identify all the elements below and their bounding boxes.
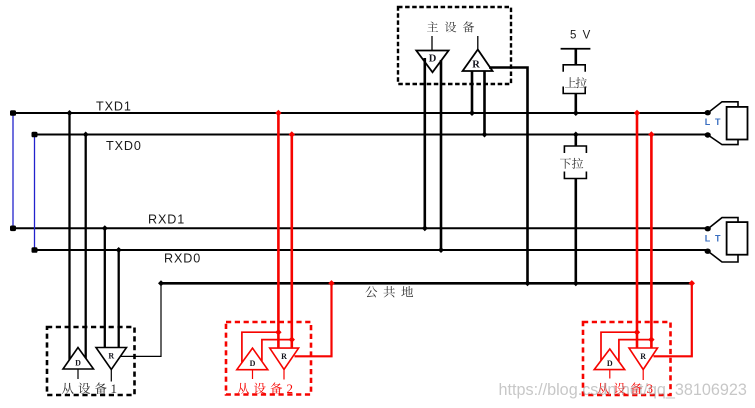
wire slave3 internal to D right bbox=[619, 340, 652, 361]
label 从设备2 bbox=[237, 383, 249, 394]
wire master R out to ground bbox=[489, 68, 528, 284]
wire blue loop TXD0-RXD0 bbox=[34, 135, 36, 251]
node terminator bottom dot bbox=[705, 249, 711, 254]
master receiver R stub bbox=[477, 36, 479, 50]
wire TXD0 bus bbox=[35, 134, 709, 136]
slave2 box 从设备2 bbox=[226, 322, 311, 395]
resistor LT termination bbox=[727, 107, 748, 140]
svg-text:L T: L T bbox=[705, 234, 722, 244]
node TXD1 left terminal bbox=[10, 110, 16, 116]
wire slave1 R out to ground bbox=[121, 283, 161, 356]
wire slave1 TXD1 tap bbox=[68, 113, 70, 361]
master device box 主设备 bbox=[398, 7, 511, 84]
node junction slave2 internal 2 bbox=[289, 336, 295, 342]
wire TXD1 bus bbox=[11, 112, 708, 114]
node junction slave1-RXD0 bbox=[116, 247, 122, 253]
wire blue loop TXD1-RXD1 bbox=[12, 113, 14, 228]
wire slave1 RXD0 tap bbox=[118, 250, 120, 348]
wire master D out to RXD0 bbox=[440, 60, 443, 251]
wire slave2 internal to D left bbox=[242, 332, 279, 362]
node junction slave3-TXD0 bbox=[648, 131, 654, 137]
node junction D-RXD0 bbox=[438, 247, 444, 253]
node junction master-ground bbox=[525, 280, 531, 286]
node junction pulldown-TXD0 bbox=[573, 132, 579, 138]
node junction slave3 internal 2 bbox=[648, 336, 654, 342]
svg-text:D: D bbox=[429, 54, 437, 65]
wire RXD1 bus bbox=[11, 227, 708, 229]
wire slave1 RXD1 tap bbox=[104, 228, 106, 348]
node junction D-RXD1 bbox=[422, 225, 428, 231]
op-amp slave3 receiver R bbox=[629, 348, 658, 370]
svg-text:TXD1: TXD1 bbox=[96, 100, 132, 114]
node junction slave2 internal 1 bbox=[275, 329, 281, 335]
node terminator top dot bbox=[705, 226, 711, 231]
svg-text:TXD0: TXD0 bbox=[106, 139, 142, 153]
op-amp slave1 receiver R bbox=[96, 348, 127, 370]
node junction slave3 internal 1 bbox=[634, 329, 640, 335]
wire common ground bus 公共地 bbox=[161, 282, 693, 285]
svg-text:D: D bbox=[250, 359, 256, 368]
label 主设备 bbox=[427, 21, 438, 31]
wire slave2 internal to D right bbox=[262, 340, 292, 361]
svg-text:R: R bbox=[108, 352, 114, 361]
wire slave2 TXD1 tap red bbox=[277, 113, 280, 349]
node junction slave1-TXD1 bbox=[67, 110, 73, 116]
wire pull-up to TXD1 bbox=[574, 94, 577, 114]
wire terminator top lead bbox=[708, 218, 738, 229]
wire master R in from TXD1 bbox=[471, 71, 474, 113]
node junction R-TXD0 bbox=[482, 132, 488, 138]
power rail bar bbox=[561, 48, 591, 50]
wire terminator top lead bbox=[708, 102, 738, 113]
node RXD0 left terminal bbox=[32, 247, 38, 253]
slave1 D stub bbox=[77, 369, 79, 379]
wire master R in from TXD0 bbox=[483, 71, 486, 135]
svg-text:1: 1 bbox=[111, 381, 118, 396]
wire slave3 R out to ground bbox=[654, 283, 692, 356]
wire slave3 TXD0 tap red bbox=[650, 135, 653, 350]
svg-text:https://blog.csdn.net/qq_38106: https://blog.csdn.net/qq_38106923 bbox=[499, 381, 747, 399]
op-amp slave3 driver D bbox=[594, 349, 625, 370]
op-amp slave2 driver D bbox=[237, 348, 268, 370]
node junction pulldown-ground bbox=[573, 280, 579, 286]
label 从设备3 bbox=[597, 383, 609, 394]
op-amp master receiver R bbox=[463, 50, 493, 72]
svg-text:D: D bbox=[75, 359, 81, 368]
node terminator top dot bbox=[705, 110, 711, 115]
node junction slave2-ground bbox=[328, 280, 334, 286]
node junction slave2-TXD0 bbox=[289, 131, 295, 137]
node junction slave1-ground bbox=[158, 280, 164, 286]
resistor LT termination bbox=[727, 222, 748, 255]
node junction slave1-RXD1 bbox=[102, 225, 108, 231]
master driver D stub bbox=[431, 36, 433, 51]
node junction slave3-ground bbox=[689, 280, 695, 286]
node junction pullup-TXD1 bbox=[573, 110, 579, 116]
wire terminator bottom lead bbox=[708, 251, 738, 262]
node terminator bottom dot bbox=[705, 132, 711, 137]
svg-text:R: R bbox=[472, 60, 480, 71]
svg-text:RXD1: RXD1 bbox=[148, 213, 185, 227]
svg-text:R: R bbox=[640, 352, 646, 361]
node RXD1 left terminal bbox=[10, 226, 16, 232]
wire slave3 TXD1 tap red bbox=[636, 113, 639, 349]
slave1 R stub bbox=[110, 370, 112, 382]
wire 5V to pull-up bbox=[574, 49, 577, 65]
svg-text:R: R bbox=[281, 352, 287, 361]
wire TXD0 to pull-down bbox=[574, 135, 577, 147]
node TXD0 left terminal bbox=[32, 132, 38, 138]
label 从设备1 bbox=[62, 383, 74, 394]
wire slave3 internal to D left bbox=[601, 332, 637, 362]
node junction slave1-TXD0 bbox=[83, 132, 89, 138]
wire slave2 TXD0 tap red bbox=[290, 135, 293, 350]
slave2 D stub bbox=[252, 370, 254, 379]
svg-text:5 V: 5 V bbox=[570, 29, 592, 41]
wire slave1 TXD0 tap bbox=[85, 135, 87, 360]
wire slave2 R out to ground bbox=[295, 283, 332, 356]
op-amp master driver D bbox=[416, 51, 448, 73]
resistor pull-down 下拉 bbox=[564, 146, 586, 153]
node junction R-TXD1 bbox=[469, 110, 475, 116]
slave3 R stub bbox=[642, 370, 644, 381]
wire RXD0 bus bbox=[35, 249, 709, 251]
node junction slave2-TXD1 bbox=[275, 110, 281, 116]
slave3 box 从设备3 bbox=[583, 322, 671, 395]
wire master D out to RXD1 bbox=[423, 58, 426, 229]
op-amp slave2 receiver R bbox=[270, 348, 299, 369]
node junction slave3-TXD1 bbox=[634, 110, 640, 116]
op-amp slave1 driver D bbox=[63, 348, 94, 370]
wire pull-down to ground bbox=[574, 179, 577, 284]
slave2 R stub bbox=[283, 370, 285, 380]
wire terminator bottom lead bbox=[708, 135, 738, 145]
svg-text:2: 2 bbox=[287, 381, 294, 396]
svg-text:L T: L T bbox=[705, 117, 722, 127]
slave1 box 从设备1 bbox=[47, 327, 135, 395]
svg-text:RXD0: RXD0 bbox=[164, 252, 201, 266]
label 公共地 common ground bbox=[365, 286, 377, 297]
resistor pull-up 上拉 bbox=[563, 65, 585, 72]
slave3 D stub bbox=[609, 370, 611, 379]
svg-text:D: D bbox=[607, 359, 613, 368]
